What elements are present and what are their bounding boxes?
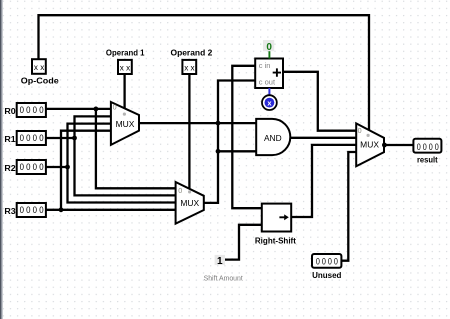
junction node A2: [216, 149, 221, 154]
input pin Operand 2: [182, 60, 196, 74]
svg-text:Operand 1: Operand 1: [106, 48, 145, 57]
junction node A1: [216, 121, 221, 126]
svg-text:Right-Shift: Right-Shift: [255, 237, 296, 246]
svg-text:Unused: Unused: [312, 271, 341, 280]
wire R3 to MUX B input 3: [46, 209, 176, 211]
wire R1 stub: [46, 137, 75, 139]
wire R2 stub: [46, 166, 68, 168]
svg-text:AND: AND: [264, 134, 282, 143]
svg-text:0 0 0 0: 0 0 0 0: [20, 133, 44, 144]
svg-text:x x: x x: [184, 62, 195, 72]
svg-text:R3: R3: [4, 207, 16, 216]
wire adder input A riser to right-shift input: [232, 66, 261, 208]
and-gate U4: [256, 119, 290, 155]
svg-text:c out: c out: [259, 77, 276, 86]
wire node A to AND input 2: [218, 150, 256, 152]
input pin R0: [17, 103, 46, 117]
wire R1 riser to MUX A input 1 and MUX B input 1: [75, 116, 176, 195]
svg-text:0 0 0 0: 0 0 0 0: [417, 142, 439, 153]
svg-text:c in: c in: [259, 61, 271, 70]
svg-text:R0: R0: [4, 107, 16, 116]
svg-text:0 0 0 0: 0 0 0 0: [316, 257, 338, 268]
input pin Op-Code: [32, 59, 46, 74]
constant 1 shift amount: [215, 255, 225, 267]
wire R0 branch to MUX B input 0: [96, 109, 176, 188]
svg-text:0: 0: [113, 102, 117, 111]
wire right-shift output to result MUX input 2: [291, 145, 356, 217]
junction R3 branch: [59, 207, 64, 212]
wire R2 riser to MUX A input 2 and MUX B input 2: [68, 124, 176, 203]
wire AND output to result MUX input 1: [290, 137, 356, 139]
svg-text:0 0 0 0: 0 0 0 0: [20, 205, 44, 216]
constant 0 carry-in: [263, 40, 274, 53]
svg-text:Shift Amount: Shift Amount: [204, 276, 243, 283]
svg-text:MUX: MUX: [116, 120, 135, 129]
svg-text:0 0 0 0: 0 0 0 0: [20, 105, 44, 116]
mux U3 result MUX: [356, 123, 387, 166]
output pin result: [413, 139, 441, 153]
svg-text:Op-Code: Op-Code: [21, 76, 60, 85]
svg-text:0: 0: [178, 186, 182, 195]
svg-text:0: 0: [358, 126, 362, 135]
input pin Operand 1: [118, 60, 132, 74]
mux U2 MUX B: [176, 182, 204, 224]
wire result MUX output to result pin: [384, 144, 413, 146]
svg-text:R2: R2: [4, 164, 16, 173]
adder U5: [255, 59, 283, 89]
svg-text:x x: x x: [120, 62, 131, 72]
wire MUX B output riser to adder input B: [204, 81, 255, 203]
svg-text:MUX: MUX: [360, 141, 379, 150]
svg-text:Operand 2: Operand 2: [171, 48, 213, 57]
svg-text:MUX: MUX: [180, 199, 199, 208]
wire R0 to MUX A input 0: [46, 108, 111, 110]
wire result MUX input 3 to Unused pin: [342, 152, 357, 261]
output pin carry-out (1-bit unknown): [262, 95, 277, 110]
wire adder c-out to output pin (blue): [268, 88, 270, 95]
wire MUX A output to AND input 1: [139, 122, 256, 124]
junction R1 branch: [72, 136, 77, 141]
junction R2 branch: [65, 165, 70, 170]
wire shift amount constant to right-shift: [225, 225, 262, 260]
svg-text:1: 1: [217, 256, 223, 267]
wire operand1 to MUX A select: [123, 74, 125, 109]
junction R0 branch: [94, 107, 99, 112]
wire op-code to result MUX select: [39, 15, 370, 130]
svg-text:x x: x x: [34, 62, 45, 72]
output pin Unused: [312, 254, 341, 268]
junction result MUX output: [382, 143, 387, 148]
wire adder output to result MUX input 0: [283, 72, 356, 131]
input pin R3: [17, 203, 46, 217]
input pin R2: [17, 160, 46, 174]
wire R3 riser to MUX A input 3: [61, 131, 111, 210]
shifter U6 Right-Shift: [262, 204, 291, 232]
input pin R1: [17, 131, 46, 145]
svg-text:R1: R1: [4, 135, 16, 144]
wire operand2 to MUX B select: [188, 74, 190, 189]
wire constant 0 to adder c-in (green): [268, 51, 270, 58]
svg-text:0 0 0 0: 0 0 0 0: [20, 162, 44, 173]
mux U1 MUX A: [111, 102, 139, 145]
svg-text:result: result: [417, 155, 438, 164]
